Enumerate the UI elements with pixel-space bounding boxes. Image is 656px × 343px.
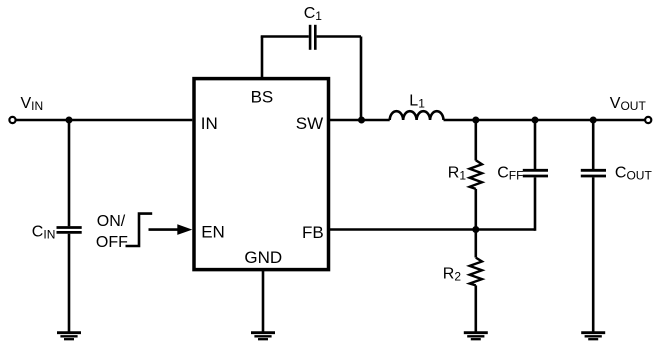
node CFF junction xyxy=(532,117,539,124)
svg-text:OFF: OFF xyxy=(96,234,128,251)
svg-text:GND: GND xyxy=(244,248,282,267)
wire CIN branch lower xyxy=(68,234,71,332)
wire CFF upper xyxy=(534,120,537,169)
svg-text:EN: EN xyxy=(201,223,225,242)
wire R1 lower xyxy=(474,189,477,230)
inductor L1 xyxy=(390,111,444,120)
wire FB line xyxy=(329,228,536,231)
wire C1 right xyxy=(317,35,361,38)
wire R2 lower xyxy=(474,285,477,332)
wire EN arrow shaft xyxy=(149,228,181,231)
capacitor C1 xyxy=(309,25,312,50)
capacitor COUT xyxy=(581,169,606,172)
node SW junction xyxy=(358,117,365,124)
resistor R2 xyxy=(470,258,482,286)
wire GND pin xyxy=(262,270,265,332)
ground (R2) xyxy=(464,333,488,340)
capacitor CFF xyxy=(523,169,548,172)
logic-level step symbol xyxy=(126,214,153,246)
wire C1 down to SW node xyxy=(360,37,363,121)
wire CIN branch upper xyxy=(68,120,71,226)
svg-text:FB: FB xyxy=(302,223,324,242)
wire L1 to VOUT xyxy=(444,119,645,122)
node FB junction xyxy=(472,226,479,233)
wire R2 upper xyxy=(474,230,477,258)
terminal VOUT xyxy=(645,117,651,123)
wire VIN to IN pin xyxy=(16,119,192,122)
node COUT junction xyxy=(590,117,597,124)
wire BS riser xyxy=(261,37,264,79)
wire CFF lower xyxy=(534,177,537,230)
node R1 junction xyxy=(472,117,479,124)
ground (CIN) xyxy=(57,333,81,340)
resistor R1 xyxy=(470,160,482,189)
wire C1 left xyxy=(261,35,309,38)
svg-text:BS: BS xyxy=(251,88,274,107)
wire COUT upper xyxy=(592,120,595,169)
wire COUT lower xyxy=(592,177,595,332)
svg-text:SW: SW xyxy=(296,114,323,133)
arrowhead into EN pin xyxy=(177,224,192,235)
wire SW pin to L1 xyxy=(329,119,390,122)
svg-text:IN: IN xyxy=(201,114,218,133)
op-amp U1 (IC box) xyxy=(194,79,329,270)
capacitor CIN xyxy=(57,226,82,229)
svg-text:ON/: ON/ xyxy=(97,213,126,230)
node CIN junction xyxy=(66,117,73,124)
ground (COUT) xyxy=(581,333,605,340)
ground (GND pin) xyxy=(251,333,275,340)
terminal VIN xyxy=(9,117,15,123)
wire R1 upper xyxy=(474,120,477,161)
